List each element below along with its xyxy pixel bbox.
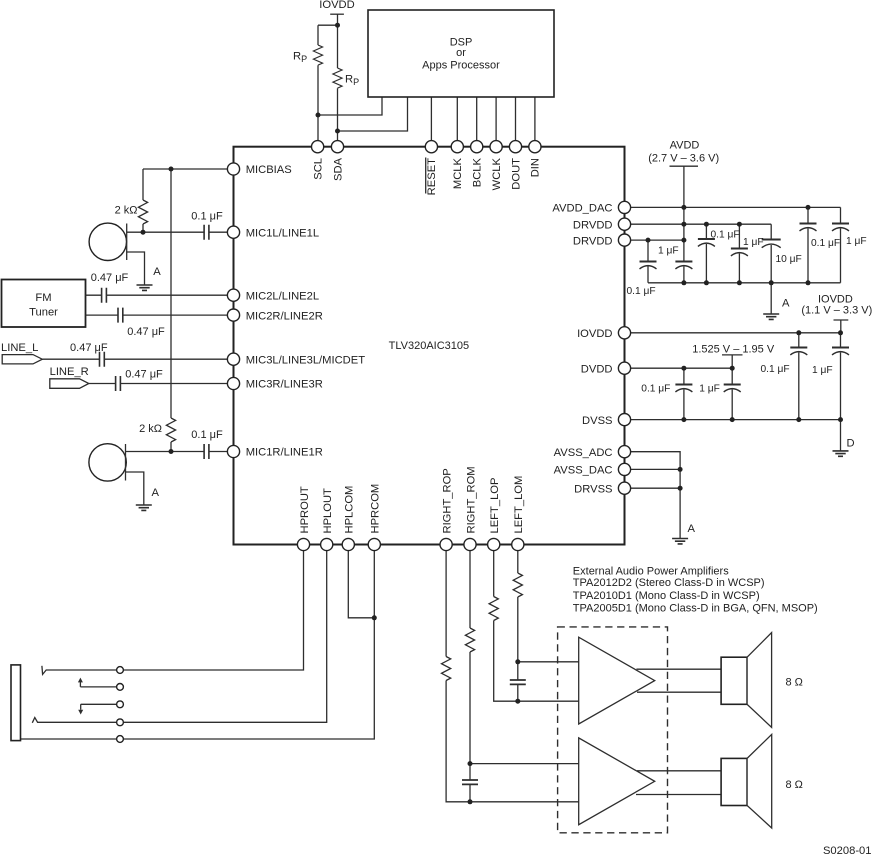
svg-text:MICBIAS: MICBIAS <box>246 164 292 176</box>
svg-text:LINE_L: LINE_L <box>1 342 38 354</box>
svg-text:MIC1L/LINE1L: MIC1L/LINE1L <box>246 227 319 239</box>
svg-text:SCL: SCL <box>312 158 324 180</box>
svg-text:0.47 μF: 0.47 μF <box>125 369 163 381</box>
svg-text:(1.1 V – 3.3 V): (1.1 V – 3.3 V) <box>801 304 872 316</box>
svg-text:DRVSS: DRVSS <box>574 483 612 495</box>
svg-text:DRVDD: DRVDD <box>573 235 613 247</box>
svg-text:External Audio Power Amplifier: External Audio Power Amplifiers <box>573 566 729 578</box>
svg-text:RESET: RESET <box>426 158 438 195</box>
svg-text:(2.7 V – 3.6 V): (2.7 V – 3.6 V) <box>648 153 719 165</box>
svg-text:AVSS_ADC: AVSS_ADC <box>554 447 613 459</box>
svg-text:S0208-01: S0208-01 <box>823 845 872 855</box>
svg-text:TPA2010D1 (Mono Class-D in WCS: TPA2010D1 (Mono Class-D in WCSP) <box>573 590 760 602</box>
svg-text:1 μF: 1 μF <box>846 236 867 247</box>
svg-text:1 μF: 1 μF <box>658 246 679 257</box>
svg-text:DIN: DIN <box>530 158 542 177</box>
svg-text:HPLOUT: HPLOUT <box>322 488 334 534</box>
svg-text:10 μF: 10 μF <box>776 254 802 265</box>
svg-text:0.1 μF: 0.1 μF <box>627 286 656 297</box>
svg-text:HPRCOM: HPRCOM <box>370 484 382 534</box>
svg-text:MIC3R/LINE3R: MIC3R/LINE3R <box>246 379 323 391</box>
svg-text:MIC2R/LINE2R: MIC2R/LINE2R <box>246 310 323 322</box>
svg-text:or: or <box>456 47 466 59</box>
svg-text:Tuner: Tuner <box>29 307 58 319</box>
svg-text:1.525 V – 1.95 V: 1.525 V – 1.95 V <box>692 343 775 355</box>
svg-text:8 Ω: 8 Ω <box>786 677 803 689</box>
svg-text:0.1 μF: 0.1 μF <box>761 364 790 375</box>
svg-text:SDA: SDA <box>332 157 344 181</box>
svg-text:RP: RP <box>345 74 359 88</box>
svg-text:RIGHT_ROP: RIGHT_ROP <box>441 468 453 533</box>
svg-text:0.1 μF: 0.1 μF <box>191 211 223 223</box>
svg-text:DVDD: DVDD <box>581 363 613 375</box>
svg-text:BCLK: BCLK <box>472 157 484 187</box>
svg-text:TPA2012D2 (Stereo Class-D in W: TPA2012D2 (Stereo Class-D in WCSP) <box>573 577 765 589</box>
svg-text:IOVDD: IOVDD <box>319 0 354 11</box>
svg-text:1 μF: 1 μF <box>699 384 720 395</box>
svg-text:MIC1R/LINE1R: MIC1R/LINE1R <box>246 447 323 459</box>
svg-text:1 μF: 1 μF <box>743 237 764 248</box>
svg-text:DOUT: DOUT <box>510 158 522 190</box>
svg-text:DVSS: DVSS <box>582 415 612 427</box>
svg-text:MIC3L/LINE3L/MICDET: MIC3L/LINE3L/MICDET <box>246 354 366 366</box>
svg-text:0.1 μF: 0.1 μF <box>191 429 223 441</box>
svg-text:RIGHT_ROM: RIGHT_ROM <box>465 466 477 533</box>
svg-text:0.47 μF: 0.47 μF <box>127 326 165 338</box>
svg-text:RP: RP <box>293 51 307 65</box>
svg-text:LEFT_LOP: LEFT_LOP <box>489 478 501 534</box>
svg-text:AVSS_DAC: AVSS_DAC <box>554 465 613 477</box>
svg-text:0.1 μF: 0.1 μF <box>711 230 740 241</box>
svg-text:IOVDD: IOVDD <box>577 328 612 340</box>
svg-text:1 μF: 1 μF <box>812 365 833 376</box>
svg-text:A: A <box>153 266 161 278</box>
svg-text:HPROUT: HPROUT <box>299 486 311 533</box>
svg-text:D: D <box>847 438 855 450</box>
svg-text:A: A <box>152 487 160 499</box>
svg-text:0.1 μF: 0.1 μF <box>641 384 670 395</box>
svg-text:LINE_R: LINE_R <box>50 366 89 378</box>
svg-text:AVDD_DAC: AVDD_DAC <box>552 203 612 215</box>
svg-text:0.47 μF: 0.47 μF <box>91 272 129 284</box>
svg-text:TPA2005D1 (Mono Class-D in BGA: TPA2005D1 (Mono Class-D in BGA, QFN, MSO… <box>573 602 818 614</box>
svg-text:0.47 μF: 0.47 μF <box>70 342 108 354</box>
svg-text:FM: FM <box>35 292 51 304</box>
svg-text:2 kΩ: 2 kΩ <box>139 423 162 435</box>
svg-text:A: A <box>688 523 696 535</box>
svg-text:MIC2L/LINE2L: MIC2L/LINE2L <box>246 290 319 302</box>
svg-text:0.1 μF: 0.1 μF <box>811 238 840 249</box>
svg-text:A: A <box>782 298 790 310</box>
svg-text:HPLCOM: HPLCOM <box>344 486 356 534</box>
svg-text:TLV320AIC3105: TLV320AIC3105 <box>389 340 470 352</box>
svg-text:DRVDD: DRVDD <box>573 219 613 231</box>
svg-text:2 kΩ: 2 kΩ <box>115 205 138 217</box>
svg-text:8 Ω: 8 Ω <box>786 779 803 791</box>
svg-text:MCLK: MCLK <box>452 157 464 189</box>
svg-text:Apps Processor: Apps Processor <box>422 60 500 72</box>
svg-text:AVDD: AVDD <box>670 139 700 151</box>
svg-text:LEFT_LOM: LEFT_LOM <box>513 476 525 534</box>
svg-text:WCLK: WCLK <box>491 157 503 190</box>
